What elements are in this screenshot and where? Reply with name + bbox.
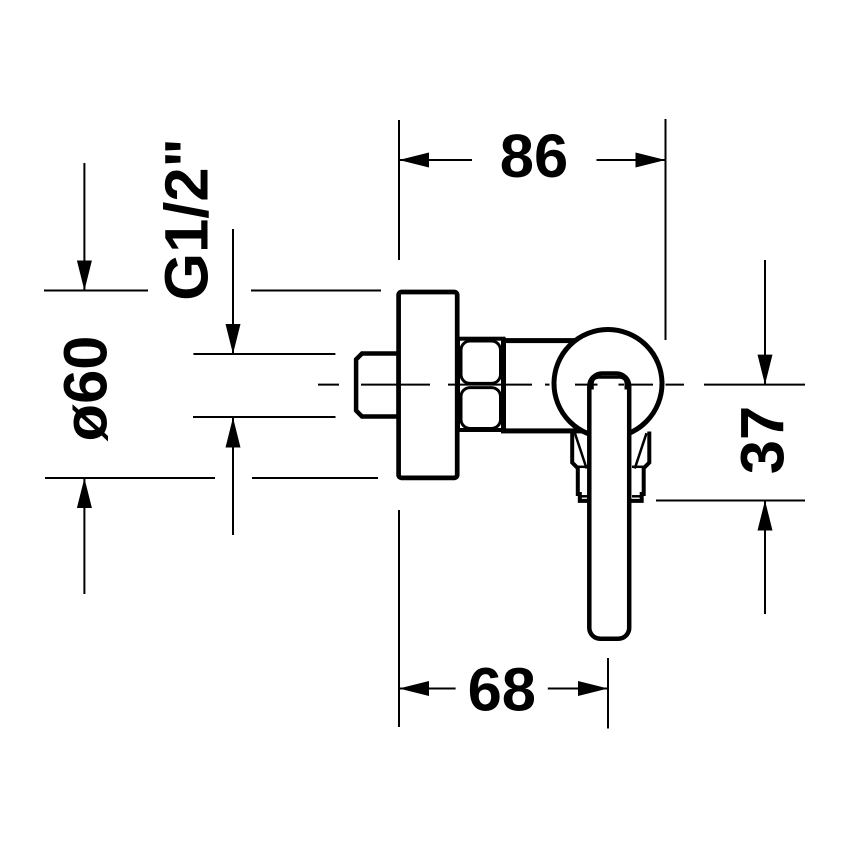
svg-text:68: 68 (468, 656, 536, 725)
dim 37 lower arrow line (764, 501, 766, 615)
centerline tick left of handle cap (592, 384, 598, 386)
cone taper line right (635, 433, 647, 468)
centerline dash 3 (448, 384, 532, 386)
dim 68 left extension line (398, 510, 400, 727)
dim 37 upper arrow line (764, 260, 766, 385)
dim 37 upper arrowhead (758, 355, 773, 385)
dim 86 left extension line (398, 120, 400, 260)
dim 68 right arrowhead (578, 681, 608, 696)
dim 86 right extension line (665, 119, 667, 340)
dim 37 lower extension line (656, 500, 805, 502)
dim ø60 lower arrow line (83, 478, 85, 594)
centerline dash 8 / upper extension of dim 37 (704, 384, 805, 386)
dim 68 line right segment (548, 688, 608, 690)
wall thread connector (G1/2 inlet stub) (356, 354, 399, 417)
dim ø60 lower arrowhead (77, 478, 92, 508)
centerline dash 4 (545, 384, 550, 386)
handle cap inner shoulder (592, 377, 626, 389)
svg-text:G1/2": G1/2" (153, 138, 222, 301)
dim G1/2 bottom extension line (193, 416, 336, 418)
fitting shelf line lower-left (580, 495, 588, 498)
valve front circle (cartridge housing) (554, 330, 662, 438)
dim ø60 upper arrowhead (77, 261, 92, 291)
dim ø60 top extension line segment 1 (44, 290, 148, 292)
fitting shelf line lower-right (632, 495, 642, 498)
centerline dash 2 (361, 384, 430, 386)
dim ø60 bottom extension line segment 2 (252, 477, 378, 479)
dim ø60 bottom extension line segment 1 (45, 477, 215, 479)
dim G1/2 upper arrowhead (226, 324, 241, 354)
dim 68 right extension line (607, 658, 609, 729)
hex nut outline (458, 339, 504, 430)
escutcheon disc (ø60, side view) (399, 292, 458, 478)
hex nut upper facet arcs (461, 341, 501, 383)
fitting shelf line upper-left (578, 466, 588, 469)
centerline dash 5 (575, 384, 593, 386)
dim 86 line left segment (399, 159, 472, 161)
centerline dash 1 (318, 384, 339, 386)
centerline tick right of handle cap (619, 384, 625, 386)
valve body (504, 341, 609, 431)
dim ø60 top extension line segment 2 (251, 290, 381, 292)
dim ø60 upper arrow line (83, 163, 85, 291)
centerline dash 7 (666, 384, 685, 386)
svg-text:37: 37 (729, 406, 798, 474)
dim G1/2 lower arrowhead (226, 418, 241, 448)
dim 86 line right segment (597, 159, 666, 161)
centerline dash 6 (629, 384, 653, 386)
bottom fitting right profile (630, 432, 650, 501)
dim 68 line left segment (399, 688, 456, 690)
dim 86 right arrowhead (636, 153, 666, 168)
dim G1/2 lower arrow line (232, 418, 234, 536)
dim G1/2 upper arrow line (232, 229, 234, 354)
hex nut lower facet arcs (461, 388, 501, 429)
cone taper line left (575, 433, 587, 468)
dim 86 left arrowhead (399, 153, 429, 168)
dim 37 lower arrowhead (758, 501, 773, 531)
fitting shelf line upper-right (632, 466, 644, 469)
bottom fitting left profile (572, 432, 589, 501)
svg-text:86: 86 (500, 122, 568, 191)
dim G1/2 top extension line (193, 353, 335, 355)
dim 68 left arrowhead (399, 681, 429, 696)
lever handle (589, 374, 629, 639)
svg-text:ø60: ø60 (52, 336, 121, 442)
